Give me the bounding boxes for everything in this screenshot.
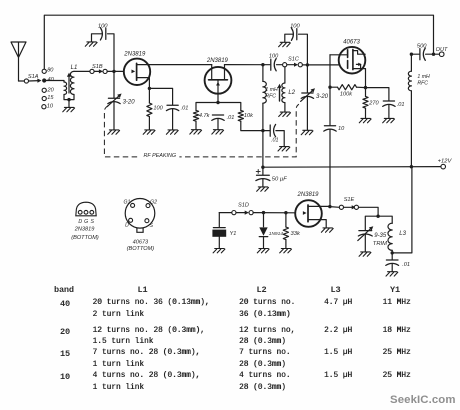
- svg-text:S1B: S1B: [92, 64, 103, 70]
- capacitor C9 500 (output): [420, 48, 425, 60]
- switch S1C wiper arrow: [287, 63, 298, 67]
- wire: top bypass rail from S1A-80 contact to OUT: [44, 15, 433, 71]
- label TRIM (CT3): [373, 241, 387, 247]
- wire: junction down to RFC1: [262, 65, 264, 82]
- svg-text:RFC: RFC: [417, 80, 428, 86]
- transistor Q3 drain lead: [308, 205, 330, 207]
- node: L1 ground junction: [67, 98, 70, 101]
- inductor L2 lead: [284, 67, 286, 83]
- svg-text:+12V: +12V: [438, 159, 453, 165]
- wire: C8 to ground: [388, 105, 390, 118]
- label .01 (C8): [397, 102, 405, 108]
- ground under L2: [279, 112, 291, 116]
- switch S1A contact 15: [42, 96, 46, 100]
- svg-text:500: 500: [417, 44, 427, 50]
- switch S1B contact b: [103, 69, 107, 73]
- label 2N3819 (package): [74, 226, 95, 232]
- label S1E: [344, 197, 355, 203]
- svg-text:S1A: S1A: [28, 74, 39, 80]
- wire: Q2 drain to RFC1 node: [225, 64, 263, 66]
- wire: S1E to tank: [359, 207, 379, 216]
- label 40673 (U1): [343, 39, 360, 45]
- node: B+ decoupling junction: [261, 129, 264, 132]
- label 1 mH (RFC1): [265, 87, 278, 93]
- capacitor C10 50uF plus sign: [256, 169, 260, 173]
- label OUT: [436, 47, 448, 53]
- svg-text:S: S: [90, 219, 94, 225]
- svg-text:G1: G1: [123, 199, 130, 205]
- wire: drain junction to C9: [411, 53, 420, 55]
- wire: R4 right lead: [357, 86, 366, 88]
- ground under C10: [257, 187, 269, 191]
- wire: L1 junction to ground: [68, 100, 70, 108]
- label 33k (R6): [291, 231, 301, 237]
- svg-text:1 mH: 1 mH: [265, 87, 278, 93]
- transistor Q2 gate lead: [217, 80, 219, 103]
- wire: L3 bottom to +12V rail: [392, 167, 412, 253]
- svg-text:50 µF: 50 µF: [272, 177, 287, 183]
- svg-text:2N3819: 2N3819: [74, 226, 95, 232]
- svg-text:Y1: Y1: [230, 231, 237, 237]
- wire: junction to R6 33k: [285, 213, 287, 227]
- svg-text:(BOTTOM): (BOTTOM): [127, 246, 155, 252]
- switch S1E wiper arrow: [344, 205, 356, 209]
- label 10k (R3): [244, 113, 254, 119]
- label RFC (RFC1): [265, 93, 276, 99]
- resistor R3 10k: [238, 110, 243, 121]
- ground under L1: [63, 107, 75, 111]
- wire: R1 to ground: [148, 117, 150, 130]
- wire: S1D to Q3 gate: [253, 212, 295, 214]
- inductor L1 primary winding: [64, 82, 67, 95]
- switch S1B wiper arrow: [94, 69, 103, 73]
- ground under R5: [359, 118, 371, 122]
- wire: R6 to ground: [285, 240, 287, 249]
- resistor R6 33k: [283, 227, 288, 240]
- transistor Q2 drain lead: [224, 65, 226, 80]
- svg-text:G: G: [84, 219, 88, 225]
- node: Q3 drain junction: [328, 205, 331, 208]
- label 100k (R4): [340, 91, 353, 97]
- label D (pin): [125, 223, 129, 229]
- svg-text:40673: 40673: [133, 240, 149, 246]
- wire: junction to D1: [263, 213, 265, 227]
- svg-text:S1D: S1D: [238, 203, 249, 209]
- wire: R4 to source node: [330, 86, 338, 88]
- transistor Q1 drain lead: [137, 64, 150, 66]
- wire: RFC2 down to +12V rail: [410, 91, 412, 167]
- wire: tank junction to CT3: [365, 216, 378, 230]
- wire: +12V rail: [263, 166, 441, 169]
- wire: tank junction to L3: [378, 216, 392, 223]
- node: RFC1 top junction: [261, 63, 264, 66]
- resistor R5 270: [363, 96, 368, 108]
- svg-text:20: 20: [47, 88, 55, 94]
- svg-text:(BOTTOM): (BOTTOM): [71, 235, 99, 241]
- label 100 (C1): [98, 23, 108, 29]
- label S1B: [92, 64, 103, 70]
- wire: RFC1 to B+ junction: [262, 103, 264, 130]
- inductor RFC1 1 mH: [263, 81, 266, 103]
- node: Q1 source junction: [148, 87, 151, 90]
- wire: C6 to ground: [285, 34, 293, 42]
- svg-text:33k: 33k: [291, 231, 301, 237]
- wire: C3 to ground: [217, 119, 219, 129]
- svg-text:RF PEAKING: RF PEAKING: [144, 153, 177, 159]
- switch S1A pole contact: [24, 79, 28, 83]
- wire: B+ junction down to rail: [262, 131, 264, 168]
- svg-text:10k: 10k: [244, 113, 254, 119]
- wire: R5 to ground: [365, 108, 367, 118]
- wire: S1C to Q3 gate1: [302, 64, 340, 66]
- wire: C1 to ground stub: [92, 34, 102, 42]
- wire: R3 to B+ node: [241, 121, 263, 130]
- U1 source lead: [353, 69, 366, 88]
- label 40: [48, 77, 55, 83]
- wire: RFC1 node to C5: [263, 64, 270, 66]
- wire: L2 to ground: [284, 103, 286, 112]
- node: U1 source junction: [364, 86, 367, 89]
- svg-text:4.7k: 4.7k: [199, 113, 211, 119]
- capacitor C7 10 (osc injection): [324, 126, 336, 131]
- label 15: [47, 95, 54, 101]
- label .01 (C4): [271, 137, 279, 143]
- transistor Q1 gate arrow: [131, 69, 135, 73]
- U1 gate2 lead: [330, 54, 348, 56]
- wire: junction to R2 4.7k: [196, 103, 218, 111]
- label .01 (C3): [227, 115, 235, 121]
- wire: junction down to trimmer CT1: [113, 71, 115, 97]
- wire: junction to C4: [263, 130, 270, 132]
- dashed gang line CT1: [104, 104, 299, 157]
- ground under D1: [257, 249, 269, 253]
- svg-text:15: 15: [47, 95, 54, 101]
- node: rail/RFC2 junction: [410, 165, 413, 168]
- wire: C5 to S1C contact: [277, 64, 283, 66]
- U1 channel bar: [352, 49, 354, 69]
- package pinout Q 2N3819 (bottom view): [76, 202, 96, 216]
- label 9-35 (CT3): [374, 233, 387, 239]
- label S (pin): [149, 223, 153, 229]
- svg-text:2N3819: 2N3819: [296, 192, 319, 198]
- transistor Q2 channel bar: [209, 79, 228, 81]
- transistor U1 40673 body: [339, 47, 366, 74]
- ground under CT1: [108, 130, 120, 134]
- wire: Q1 drain to Q2: [150, 64, 212, 66]
- node: tank junction: [376, 215, 379, 218]
- crystal Y1: [212, 228, 226, 237]
- label S1A: [28, 74, 39, 80]
- svg-text:.01: .01: [271, 137, 279, 143]
- ground under Y1: [213, 249, 225, 253]
- capacitor C11 .01 (tank): [386, 260, 399, 265]
- node: gate2/R4 junction: [328, 86, 331, 89]
- switch S1A wiper arrow: [29, 79, 42, 83]
- diode D1 1N914: [259, 227, 267, 236]
- U1 drain lead: [353, 51, 365, 55]
- svg-text:1 mH: 1 mH: [417, 74, 430, 80]
- trimmer capacitor CT1 3-20: [108, 98, 120, 103]
- svg-text:3-20: 3-20: [123, 99, 136, 105]
- resistor R4 100k: [338, 85, 357, 90]
- resistor R2 4.7k: [193, 110, 198, 121]
- wire: gate2 node down to C7: [329, 87, 331, 125]
- capacitor C2 .01 (Q1 source bypass): [166, 105, 178, 110]
- capacitor C10 50 uF: [256, 175, 270, 180]
- capacitor C1 100 (gate): [100, 28, 105, 40]
- label 40673 (package): [133, 240, 149, 246]
- wire: CT3 to ground: [364, 235, 366, 252]
- label 2N3819 (Q3): [296, 192, 319, 198]
- wire: antenna to S1A pole: [19, 80, 25, 82]
- switch S1D wiper arrow: [236, 211, 249, 215]
- wire: C11 to ground: [391, 264, 393, 271]
- svg-text:G2: G2: [150, 200, 157, 206]
- label 270 (R5): [368, 100, 379, 106]
- U1 gate1 bar: [347, 61, 349, 69]
- wire: L3 to junction: [391, 250, 393, 259]
- inductor L3: [388, 223, 392, 250]
- antenna ANT: [11, 42, 26, 81]
- wire: crystal lead: [218, 213, 220, 228]
- svg-text:100: 100: [290, 23, 300, 29]
- wire: C2 to ground: [172, 109, 174, 129]
- svg-text:3-20: 3-20: [316, 94, 329, 100]
- label 2N3819 (Q1): [123, 52, 146, 58]
- label 100 (C6): [290, 23, 300, 29]
- wire: gate2 vertical: [329, 55, 331, 87]
- svg-text:270: 270: [368, 100, 379, 106]
- trimmer capacitor CT3 9-35: [358, 231, 372, 236]
- ground under R1: [143, 130, 155, 134]
- transistor Q1 source lead: [137, 78, 150, 89]
- label 1 mH (RFC2): [417, 74, 430, 80]
- svg-text:S1C: S1C: [288, 56, 300, 62]
- switch S1D contact a: [232, 211, 236, 215]
- label 80: [47, 68, 54, 74]
- label 100 (R1): [153, 105, 163, 111]
- label S1C: [288, 56, 300, 62]
- terminal OUT: [439, 52, 444, 57]
- label (BOTTOM) u: [127, 246, 155, 252]
- capacitor C5 100 (series): [271, 59, 276, 71]
- wire: junction down to trimmer CT2: [306, 65, 308, 93]
- svg-text:.01: .01: [402, 262, 410, 268]
- transistor Q1 2N3819 body: [124, 59, 150, 85]
- svg-text:100: 100: [153, 105, 163, 111]
- transistor Q3 2N3819 body: [295, 200, 322, 227]
- label +12V: [438, 159, 453, 165]
- label 10: [47, 104, 54, 110]
- switch S1A contact 80: [42, 69, 46, 73]
- transistor Q2 source lead: [211, 65, 213, 80]
- label 1N914 (D1): [269, 231, 283, 237]
- svg-text:2N3819: 2N3819: [123, 52, 146, 58]
- label G1: [123, 199, 130, 205]
- switch S1E contact a: [339, 205, 343, 209]
- label L3: [399, 231, 406, 237]
- label L1: [71, 65, 78, 71]
- node: drain/RFC2 junction: [410, 53, 413, 56]
- transistor Q3 gate bar: [307, 205, 309, 222]
- wire: junction up to C6: [299, 34, 308, 65]
- label .01 (C11): [402, 262, 410, 268]
- svg-text:9-35: 9-35: [374, 233, 387, 239]
- label 4.7k (R2): [199, 113, 211, 119]
- wire: S1A-40 to L1 primary: [46, 81, 64, 83]
- wire: junction up to C1: [108, 34, 115, 72]
- node: L3 bottom junction: [391, 251, 394, 254]
- svg-text:D: D: [78, 219, 82, 225]
- label RF PEAKING: [140, 151, 179, 159]
- label .01 (C2): [181, 105, 189, 111]
- capacitor C4 .01 (B+ decoupling): [270, 124, 275, 136]
- ground under C11: [386, 272, 398, 276]
- label RFC (RFC2): [417, 80, 428, 86]
- switch S1A contact 20: [42, 88, 46, 92]
- label 100 (C5): [269, 54, 279, 60]
- wire: junction to R1: [148, 88, 150, 103]
- wire: source to R5 270: [365, 88, 367, 97]
- svg-text:S: S: [149, 223, 153, 229]
- wire: CT2 to ground: [306, 97, 308, 130]
- label G2: [150, 200, 157, 206]
- label Y1: [230, 231, 237, 237]
- svg-text:10: 10: [338, 126, 345, 132]
- node: R6 junction: [284, 211, 287, 214]
- wire: C10 to ground: [262, 179, 264, 186]
- wire: R2 to ground: [195, 121, 197, 129]
- L2 tuning arrow: [277, 84, 281, 101]
- switch S1B contact a: [90, 69, 94, 73]
- wire: D1 to ground: [263, 237, 265, 249]
- transistor Q3 source lead: [308, 220, 326, 228]
- svg-text:.01: .01: [227, 115, 235, 121]
- node: diode junction: [262, 211, 265, 214]
- switch S1E contact b: [354, 205, 358, 209]
- wire: junction to C10: [262, 167, 264, 175]
- switch S1A contact 10: [42, 105, 46, 109]
- node: OUT junction: [432, 53, 435, 56]
- svg-text:L3: L3: [399, 231, 406, 237]
- switch S1C contact a: [283, 63, 287, 67]
- package pinout U 40673 (bottom view): [125, 199, 155, 233]
- ground under C2: [166, 130, 178, 134]
- terminal +12V: [441, 164, 446, 169]
- trimmer CT2 arrow: [301, 88, 315, 101]
- labels D G S: [78, 219, 94, 225]
- node: Q2 bottom junction: [216, 101, 219, 104]
- ground under CT3: [359, 252, 371, 256]
- label (BOTTOM) q: [71, 235, 99, 241]
- node: gate junction: [112, 70, 115, 73]
- switch S1A contact 40: [42, 78, 46, 82]
- watermark SeekIC.com: [390, 394, 456, 406]
- ground under R2: [190, 130, 202, 134]
- trimmer CT1 arrow: [107, 94, 121, 107]
- svg-text:10: 10: [47, 104, 54, 110]
- wire: Y1 to S1D: [219, 212, 231, 214]
- ground under R6: [280, 249, 292, 253]
- wire: Y1 to ground: [218, 237, 220, 248]
- capacitor C6 100 (bypass): [291, 28, 296, 40]
- svg-text:.01: .01: [397, 102, 405, 108]
- wire: drain junction down to RFC2: [410, 54, 412, 71]
- ground under CT2: [301, 130, 313, 134]
- label 3-20 (CT2): [316, 94, 329, 100]
- capacitor C8 .01 (U1 source): [383, 101, 395, 106]
- inductor L1 secondary winding: [70, 71, 74, 94]
- transistor Q2 gate arrow: [216, 82, 220, 86]
- wire: source to C8: [366, 88, 389, 101]
- ground under Q3 source: [321, 228, 333, 232]
- capacitor C3 .01 (Q2): [212, 115, 224, 120]
- L1 tuning arrow: [67, 73, 71, 93]
- label 2N3819 (Q2): [206, 58, 229, 64]
- label 20: [47, 88, 55, 94]
- switch S1C contact b: [298, 63, 302, 67]
- svg-text:L1: L1: [71, 65, 78, 71]
- svg-text:80: 80: [47, 68, 54, 74]
- inductor L2: [282, 83, 285, 103]
- label L2: [288, 90, 295, 96]
- label 50 uF (C10): [272, 177, 287, 183]
- ground under C8: [383, 118, 395, 122]
- inductor RFC2 1 mH: [408, 71, 411, 91]
- svg-text:100: 100: [269, 54, 279, 60]
- wire: junction to C2: [149, 88, 172, 104]
- transistor Q1 gate bar: [136, 63, 138, 80]
- svg-text:40673: 40673: [343, 39, 360, 45]
- U1 substrate arrow: [356, 63, 361, 69]
- label 500 (C9): [417, 44, 427, 50]
- U1 gate2 bar: [347, 50, 349, 58]
- svg-text:L2: L2: [288, 90, 295, 96]
- wire: L1 bottom loop: [64, 95, 74, 100]
- svg-text:2N3819: 2N3819: [206, 58, 229, 64]
- trimmer CT3 arrow: [358, 226, 374, 240]
- wire: CT1 to ground: [113, 102, 115, 129]
- wire: C4 to ground: [276, 131, 284, 147]
- wire: C9 to OUT: [426, 53, 440, 55]
- node: rail/50uF junction: [261, 166, 264, 169]
- switch S1D contact b: [249, 211, 253, 215]
- label S1D: [238, 203, 249, 209]
- ground under C3: [212, 130, 224, 134]
- wire: S1B to Q1 gate: [107, 70, 124, 72]
- ground under C4: [278, 147, 290, 151]
- transistor Q3 gate arrow: [303, 211, 307, 215]
- svg-text:TRIM: TRIM: [373, 241, 387, 247]
- label 3-20 (CT1): [123, 99, 136, 105]
- trimmer capacitor CT2 3-20: [301, 93, 313, 98]
- label 10 (C7): [338, 126, 345, 132]
- svg-text:S1E: S1E: [344, 197, 355, 203]
- transistor Q2 2N3819 body: [205, 67, 232, 94]
- svg-text:RFC: RFC: [265, 93, 276, 99]
- svg-text:D: D: [125, 223, 129, 229]
- svg-text:OUT: OUT: [436, 47, 448, 53]
- wire: C7 down across rail to Q3 drain: [329, 130, 331, 207]
- svg-text:1N914: 1N914: [269, 231, 283, 237]
- svg-text:100k: 100k: [340, 91, 353, 97]
- ground under C1: [85, 42, 97, 46]
- wire: L1 to S1B: [74, 70, 90, 72]
- node: S1C output junction: [306, 63, 309, 66]
- wire: Q3 drain to S1E: [330, 206, 339, 209]
- svg-text:100: 100: [98, 23, 108, 29]
- ground under C6: [279, 42, 291, 46]
